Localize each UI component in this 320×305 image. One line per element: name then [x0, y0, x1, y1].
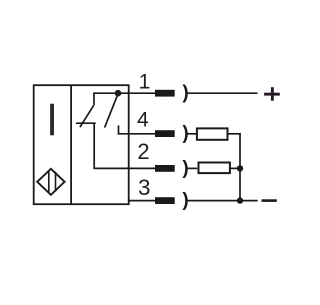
pin 2 terminal	[155, 165, 175, 172]
minus terminal	[262, 199, 277, 202]
wire 2 to resistor R2	[187, 167, 197, 169]
sensor body box	[34, 85, 129, 204]
wire 1 to plus	[187, 92, 258, 94]
node bus-wire2 dot	[237, 165, 243, 171]
switch S1 NC contact	[76, 93, 96, 127]
wire R2 to bus	[231, 167, 241, 169]
wire body to pin 3	[129, 200, 155, 202]
inductive symbol I	[50, 104, 54, 136]
svg-text:2: 2	[137, 139, 149, 164]
plus terminal	[264, 87, 280, 101]
node junction dot	[115, 90, 122, 97]
wire NC to pin 2	[93, 123, 155, 169]
proximity sensor diamond	[37, 169, 64, 195]
wire NO to pin 4	[118, 133, 156, 135]
svg-text:1: 1	[139, 70, 151, 93]
svg-text:3: 3	[138, 175, 151, 200]
wire 4 to resistor R1	[187, 133, 196, 135]
switch S2 NO contact	[105, 95, 119, 134]
wire common to pin 1	[93, 92, 155, 94]
svg-text:4: 4	[137, 109, 149, 132]
pin 1 terminal	[155, 90, 175, 97]
pin 3 terminal	[155, 197, 175, 204]
resistor R1	[197, 128, 228, 139]
bus wire	[239, 133, 241, 201]
resistor R2	[199, 163, 230, 174]
pin 4 terminal	[155, 130, 175, 137]
wire 3 to minus	[187, 200, 258, 202]
wire R1 to bus	[228, 133, 241, 135]
node bus-wire3 dot	[237, 197, 243, 203]
